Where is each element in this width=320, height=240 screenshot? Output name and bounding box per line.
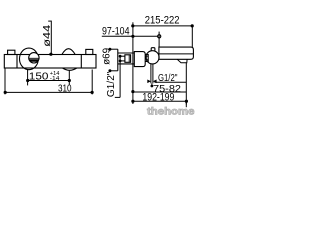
assembly box bottom xyxy=(118,63,135,65)
wall extension line xyxy=(132,22,134,104)
dia44 leader dot xyxy=(49,53,52,56)
310 right dot xyxy=(91,91,94,94)
spout seam line xyxy=(159,53,193,55)
192-199 right dot xyxy=(185,100,188,103)
svg-text:150: 150 xyxy=(29,71,49,82)
G12 row underline xyxy=(155,81,187,83)
thermostat handle circle xyxy=(20,48,39,70)
G12 leader dot top xyxy=(119,55,122,58)
svg-text:97-104: 97-104 xyxy=(102,26,130,38)
nipple bowtie left arrow xyxy=(147,80,151,84)
97-104 ring ext xyxy=(158,32,160,48)
150 left dot xyxy=(26,79,29,82)
handle hub bracket xyxy=(145,54,148,61)
handle hub notch xyxy=(146,56,148,60)
dia69 top dot xyxy=(108,48,111,51)
pipe top xyxy=(120,55,125,57)
150 right dot xyxy=(68,79,71,82)
G12 leader dot bottom xyxy=(119,60,122,63)
assembly box top xyxy=(118,52,135,54)
svg-text:thehome: thehome xyxy=(147,106,195,117)
svg-text:G1/2": G1/2" xyxy=(106,71,117,97)
215-222 dim line xyxy=(133,25,192,27)
union nut inner line xyxy=(128,55,130,63)
spout outline xyxy=(159,47,194,59)
aerator wedge xyxy=(177,59,187,62)
left top cap xyxy=(8,50,15,54)
150 dim line xyxy=(28,80,70,82)
nipple bowtie right arrow xyxy=(153,80,157,84)
right top cap xyxy=(86,49,93,54)
svg-text:192-199: 192-199 xyxy=(142,91,174,103)
75-82 dim line xyxy=(133,91,186,93)
G12 leader vertical xyxy=(119,56,121,97)
dia69 bottom leader xyxy=(110,70,118,72)
svg-text:G1/2": G1/2" xyxy=(158,73,178,84)
body left seam xyxy=(16,55,18,69)
union nut xyxy=(125,55,131,63)
192-199 dim line xyxy=(133,100,187,102)
97-104 dim line xyxy=(102,35,158,37)
97-104 wall dot xyxy=(131,35,134,38)
dia69 top leader xyxy=(110,48,118,50)
svg-text:ø44: ø44 xyxy=(42,24,53,47)
150 right ext xyxy=(68,71,70,85)
hose nipple right line xyxy=(152,64,154,84)
right dome arc xyxy=(62,49,75,55)
mixer body front view xyxy=(4,55,96,69)
215-222 right ext xyxy=(191,26,193,47)
button dark band xyxy=(29,59,38,62)
75-82 left dot xyxy=(131,90,134,93)
svg-text:215-222: 215-222 xyxy=(145,14,180,26)
150 left ext xyxy=(27,70,29,86)
192-199 left dot xyxy=(131,100,134,103)
hose nipple left line xyxy=(150,64,152,84)
temperature button circle xyxy=(29,53,39,63)
svg-text:310: 310 xyxy=(58,83,72,94)
dia44 leader top tick xyxy=(48,20,51,22)
97-104 end ring xyxy=(158,35,161,38)
310 left dot xyxy=(4,91,7,94)
310 dim line xyxy=(5,91,92,93)
svg-text:-14: -14 xyxy=(50,76,60,82)
svg-text:ø69: ø69 xyxy=(101,47,112,64)
mixer body side view xyxy=(134,52,145,67)
right ext overshoot xyxy=(185,101,187,107)
310 left ext xyxy=(4,69,6,95)
dia69 bottom dot xyxy=(108,69,111,72)
right under bulge xyxy=(63,68,77,70)
G12 leader stub xyxy=(115,96,120,98)
escutcheon face line xyxy=(117,49,119,71)
215-222 right dot xyxy=(191,24,194,27)
pipe bottom xyxy=(120,60,125,62)
nipple end dot xyxy=(151,85,154,88)
dia44 leader line xyxy=(50,21,52,55)
body right seam xyxy=(80,55,82,69)
nipple center ext xyxy=(151,83,153,86)
volume handle circle xyxy=(146,51,159,64)
button chord line xyxy=(29,57,39,59)
215-222 left dot xyxy=(131,24,134,27)
310 right ext xyxy=(91,70,93,95)
handle top nub xyxy=(151,48,155,51)
aerator ext line xyxy=(185,63,187,105)
